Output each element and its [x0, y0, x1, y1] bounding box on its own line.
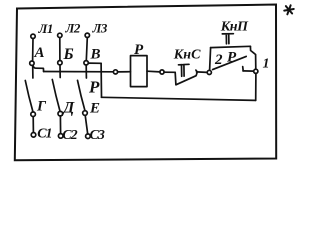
wire Л3 drop — [86, 38, 87, 61]
svg-text:Г: Г — [36, 99, 47, 115]
contact Р phase C fixed stub — [85, 65, 87, 78]
svg-text:Е: Е — [89, 101, 100, 117]
node В — [84, 61, 88, 65]
button КнП bridge — [211, 46, 251, 47]
node А — [30, 61, 34, 65]
button КнП plunger — [222, 34, 233, 44]
node 2 — [207, 70, 211, 74]
svg-text:С2: С2 — [62, 128, 77, 143]
wire bottom return — [102, 97, 256, 100]
terminal С1 — [31, 133, 36, 138]
svg-text:Р: Р — [88, 78, 100, 97]
wire coil to node — [147, 70, 160, 73]
contact Р phase A blade — [25, 81, 33, 113]
frame drawn unlabeled — [15, 5, 276, 161]
terminal Д — [58, 111, 63, 116]
svg-text:Л1: Л1 — [38, 21, 53, 36]
terminal С2 — [58, 134, 63, 139]
node Б — [58, 61, 62, 65]
contact Р aux blade — [213, 56, 247, 69]
wire В step — [88, 62, 101, 64]
svg-text:Б: Б — [63, 46, 74, 63]
wire Л2 drop — [59, 38, 61, 61]
node coil right — [160, 70, 164, 74]
wire В drop — [100, 63, 102, 97]
terminal Е — [83, 111, 88, 116]
wire Е-С3 — [85, 115, 88, 134]
terminal С3 — [86, 134, 91, 139]
wire Д-С2 — [59, 116, 61, 134]
svg-text:Д: Д — [61, 100, 75, 117]
wire to coil — [118, 71, 131, 73]
wire Г-С1 — [32, 117, 34, 133]
terminal Л3 — [85, 33, 89, 37]
svg-text:С1: С1 — [37, 127, 51, 142]
svg-text:Л3: Л3 — [92, 21, 108, 36]
terminal Л2 — [58, 33, 62, 37]
contact Р aux fixed hook — [242, 67, 245, 71]
wire to КнС — [164, 71, 175, 73]
svg-text:1: 1 — [263, 57, 270, 72]
terminal Л1 — [31, 34, 35, 38]
wire coil bus — [44, 71, 114, 73]
wire КнС to node 2 — [197, 71, 208, 74]
wire aux fixed to node 1 — [243, 70, 254, 72]
contact Р phase A fixed stub — [32, 65, 34, 78]
node 1 — [254, 69, 258, 73]
svg-text:КнС: КнС — [173, 48, 201, 63]
button КнП riser left — [210, 48, 211, 71]
wire A step to coil bus — [33, 65, 44, 71]
button КнС plunger — [179, 64, 190, 76]
button КнП right side — [250, 46, 255, 69]
coil Р — [131, 56, 148, 87]
node coil left — [113, 70, 117, 74]
button КнС blade — [175, 70, 197, 85]
wire node 1 drop — [255, 73, 257, 100]
contact Р phase C blade — [78, 80, 86, 111]
svg-text:Р: Р — [134, 42, 144, 58]
footnote asterisk — [283, 4, 294, 16]
svg-text:В: В — [90, 47, 101, 63]
svg-text:С3: С3 — [90, 128, 105, 143]
svg-text:КнП: КнП — [220, 20, 249, 35]
svg-text:Л2: Л2 — [65, 21, 81, 36]
svg-text:Р: Р — [227, 50, 237, 66]
contact Р phase B fixed stub — [59, 65, 61, 78]
svg-text:А: А — [34, 45, 45, 61]
wire Л1 drop — [32, 39, 34, 62]
terminal Г — [31, 112, 36, 117]
contact Р phase B blade — [52, 80, 60, 112]
